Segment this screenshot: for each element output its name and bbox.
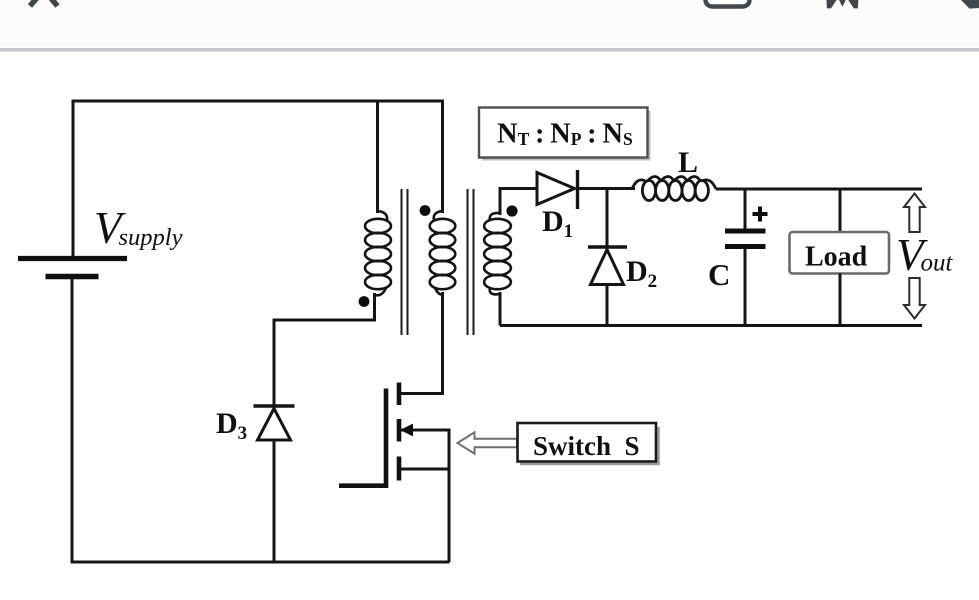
toolbar share icon (cropped at corner) [960, 0, 979, 9]
wire capacitor drop [744, 189, 747, 230]
capacitor C plates [725, 231, 766, 247]
wire top rail [72, 100, 445, 103]
wire supply left drop [72, 100, 75, 257]
toolbar tab icon (rounded square, cropped) [706, 0, 750, 7]
svg-text:L: L [678, 146, 698, 179]
polarity dot secondary [506, 205, 517, 216]
wire reset-winding top drop [376, 100, 379, 214]
wire load bottom [839, 274, 842, 326]
inductor L [632, 177, 716, 201]
arrow Vout down [904, 278, 925, 319]
diode D3 [254, 406, 295, 440]
MOSFET source stub [399, 468, 451, 471]
wire secondary top to D1 [500, 189, 537, 216]
MOSFET channel bars [397, 383, 402, 481]
MOSFET body-source vertical [448, 429, 451, 470]
wire D2 drop [606, 189, 609, 248]
polarity dot primary [420, 205, 431, 216]
svg-text:C: C [708, 257, 730, 292]
wire output bottom rail [500, 324, 922, 327]
wire load top [839, 189, 842, 232]
wire D1 to L [578, 187, 636, 190]
ratio box shadow [482, 111, 650, 160]
diode D2 [588, 247, 627, 285]
battery Vsupply [18, 259, 127, 277]
arrow Vout up [904, 194, 925, 233]
wire reset winding to D3 [274, 293, 375, 406]
wire battery to ground rail [71, 279, 74, 564]
ratio box NT:NP:NS [479, 108, 648, 158]
toolbar close icon X (cropped at top) [30, 0, 58, 6]
MOSFET body stub with arrow [400, 429, 451, 432]
diode D1 [537, 170, 578, 209]
switch S callout box [518, 423, 657, 462]
toolbar divider [0, 48, 979, 52]
wire D3 to ground rail [273, 440, 276, 562]
transformer core lines [402, 189, 474, 335]
svg-text:NT : NP : NS: NT : NP : NS [497, 119, 633, 150]
switch S callout box shadow [520, 427, 659, 464]
wire primary to MOSFET drain [397, 292, 443, 394]
wire source to ground rail [448, 469, 451, 562]
wire D2 to bottom rail [606, 285, 609, 326]
MOSFET switch: gate lead [339, 389, 386, 486]
wire primary top drop [441, 100, 444, 214]
label + (polarity) [753, 207, 768, 222]
wire secondary bottom [499, 292, 502, 326]
svg-text:Switch S: Switch S [533, 431, 640, 461]
wire L to output [716, 188, 922, 191]
svg-text:Load: Load [805, 242, 868, 273]
transformer primary winding NP [430, 211, 456, 294]
wire capacitor to bottom rail [744, 248, 747, 326]
load box [790, 232, 890, 274]
polarity dot reset winding [359, 296, 370, 307]
wire bottom ground rail [71, 561, 450, 564]
transformer secondary winding NS [484, 213, 511, 295]
toolbar star icon (cropped) [826, 0, 858, 8]
transformer reset winding NT [365, 211, 391, 295]
block arrow switch pointer [458, 432, 518, 453]
